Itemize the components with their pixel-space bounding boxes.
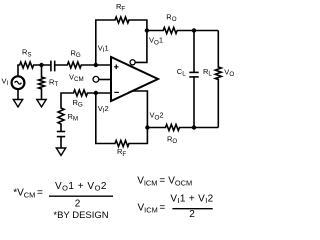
svg-text:VI1 + VI2: VI1 + VI2 [170, 193, 213, 205]
svg-text:2: 2 [75, 199, 81, 210]
svg-text:=: = [37, 188, 43, 199]
svg-text:*BY DESIGN: *BY DESIGN [53, 210, 108, 221]
svg-text:VO1 + VO2: VO1 + VO2 [55, 181, 107, 193]
svg-text:=: = [159, 175, 165, 186]
svg-text:=: = [159, 202, 165, 213]
svg-text:2: 2 [189, 209, 195, 220]
